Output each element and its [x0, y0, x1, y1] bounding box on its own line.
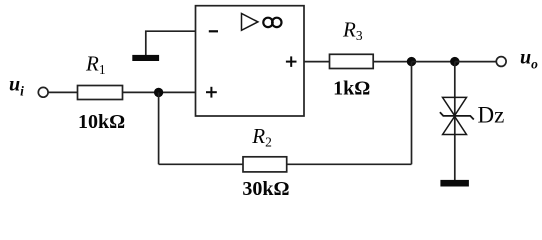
- resistor R2: [243, 157, 287, 172]
- svg-text:R3: R3: [342, 18, 363, 44]
- wire: R3 to node B: [373, 61, 411, 63]
- resistor R3: [330, 54, 374, 68]
- op-amp inverting input '−': [209, 30, 218, 32]
- wire: node C down through Dz to ground: [454, 62, 456, 181]
- wire: feedback rail right segment: [287, 163, 412, 165]
- svg-text:R2: R2: [251, 124, 272, 150]
- wire: inverting input to ground: [146, 31, 196, 55]
- junction node C: [450, 57, 459, 66]
- wire: input terminal to R1: [48, 91, 77, 93]
- op-amp infinity symbol: [263, 18, 281, 27]
- wire: node B to node C: [412, 61, 455, 63]
- op-amp output '+': [286, 56, 297, 67]
- wire: R1 to op-amp noninverting input: [123, 91, 196, 93]
- svg-text:R1: R1: [85, 51, 106, 77]
- wire: node C to output terminal: [455, 61, 497, 63]
- resistor R1: [78, 86, 123, 100]
- op-amp gain triangle: [242, 14, 258, 31]
- wire: node B down to R2 rail: [411, 62, 413, 165]
- zener diode Dz (bidirectional): [440, 97, 474, 134]
- svg-text:1kΩ: 1kΩ: [333, 78, 370, 100]
- junction node B: [407, 57, 416, 66]
- svg-text:30kΩ: 30kΩ: [242, 178, 289, 200]
- ground bar (inverting input): [132, 55, 159, 61]
- ground bar (below Dz): [440, 180, 469, 187]
- wire: feedback rail left segment: [159, 163, 243, 165]
- svg-text:10kΩ: 10kΩ: [78, 111, 125, 133]
- op-amp noninverting input '+': [206, 87, 217, 98]
- svg-text:uo: uo: [520, 47, 538, 72]
- junction node A: [154, 88, 163, 97]
- svg-text:ui: ui: [9, 74, 24, 99]
- wire: op-amp output to R3: [304, 61, 330, 63]
- svg-text:Dz: Dz: [478, 103, 505, 128]
- wire: node A down to feedback rail: [158, 92, 160, 164]
- output terminal circle: [496, 57, 506, 67]
- op-amp U1 body: [196, 6, 305, 116]
- input terminal circle: [38, 87, 48, 97]
